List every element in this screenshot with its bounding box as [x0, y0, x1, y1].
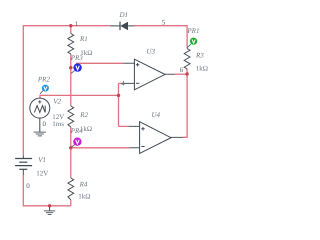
ground below V2 — [34, 118, 46, 136]
junction node 1 — [69, 24, 72, 27]
svg-text:V2: V2 — [53, 98, 61, 106]
svg-text:1kΩ: 1kΩ — [78, 193, 90, 201]
svg-text:U3: U3 — [146, 47, 155, 55]
svg-text:PR4: PR4 — [70, 127, 84, 135]
svg-text:1kΩ: 1kΩ — [196, 65, 208, 73]
svg-text:1ms: 1ms — [52, 120, 64, 128]
junction tee minus net — [117, 94, 120, 97]
wire mid column R4 to bottom — [70, 200, 72, 206]
svg-text:R3: R3 — [195, 52, 204, 60]
wire V2 to tee horizontal — [40, 94, 119, 96]
svg-text:1: 1 — [75, 20, 79, 28]
wire bottom horizontal — [23, 205, 71, 207]
source V2 — [30, 98, 50, 118]
resistor R2 — [68, 106, 74, 127]
svg-text:PR1: PR1 — [186, 27, 199, 35]
probe PR1 — [187, 38, 197, 48]
svg-text:R2: R2 — [79, 111, 88, 119]
svg-text:V1: V1 — [38, 156, 46, 164]
wire V2 stem — [39, 95, 41, 98]
svg-text:4: 4 — [121, 79, 125, 87]
resistor R4 — [68, 178, 74, 200]
svg-text:12V: 12V — [36, 170, 48, 178]
wire mid column R1 to R2 — [70, 54, 72, 106]
wire left vertical lower — [22, 175, 24, 206]
wire U3 output to node6 — [175, 73, 187, 75]
wire node6 down to U4 output corner — [183, 74, 187, 137]
svg-text:PR2: PR2 — [37, 75, 51, 83]
wire U4 plus horizontal — [119, 125, 130, 127]
wire right vertical top to R3 — [186, 25, 188, 48]
wire top left horizontal — [23, 25, 109, 27]
op-amp U4 — [129, 122, 183, 154]
junction PR3 attach — [69, 66, 72, 69]
probe PR2 — [40, 85, 49, 94]
junction PR4 attach — [69, 146, 72, 149]
wire U4 minus horizontal — [71, 147, 130, 149]
battery V1 — [15, 155, 32, 175]
resistor R1 — [68, 34, 74, 55]
diode D1 — [110, 22, 135, 31]
probe PR4 — [71, 138, 81, 148]
wire R3 to node6 — [186, 69, 188, 74]
probe PR3 — [71, 63, 82, 73]
svg-text:5: 5 — [162, 19, 166, 27]
wire U3 minus vertical branch — [118, 83, 120, 126]
ground bottom — [44, 206, 55, 215]
resistor R3 — [184, 49, 190, 70]
svg-text:U4: U4 — [152, 111, 161, 119]
wire left vertical upper — [22, 25, 24, 155]
junction node 6 — [185, 72, 188, 75]
svg-text:0: 0 — [26, 182, 30, 190]
svg-text:R4: R4 — [79, 180, 88, 188]
svg-text:6: 6 — [180, 66, 184, 74]
wire mid column node1 to R1 — [70, 26, 72, 34]
wire U3 minus horizontal — [119, 82, 123, 84]
wire top right horizontal — [134, 25, 187, 27]
junction ground bottom — [48, 204, 51, 207]
svg-text:0: 0 — [43, 120, 47, 128]
wire U3 plus input — [76, 62, 124, 64]
svg-text:D1: D1 — [119, 11, 129, 19]
svg-text:R1: R1 — [79, 35, 88, 43]
wire mid column R2 to R4 — [70, 127, 72, 178]
op-amp U3 — [123, 59, 175, 90]
svg-text:PR3: PR3 — [70, 54, 84, 62]
